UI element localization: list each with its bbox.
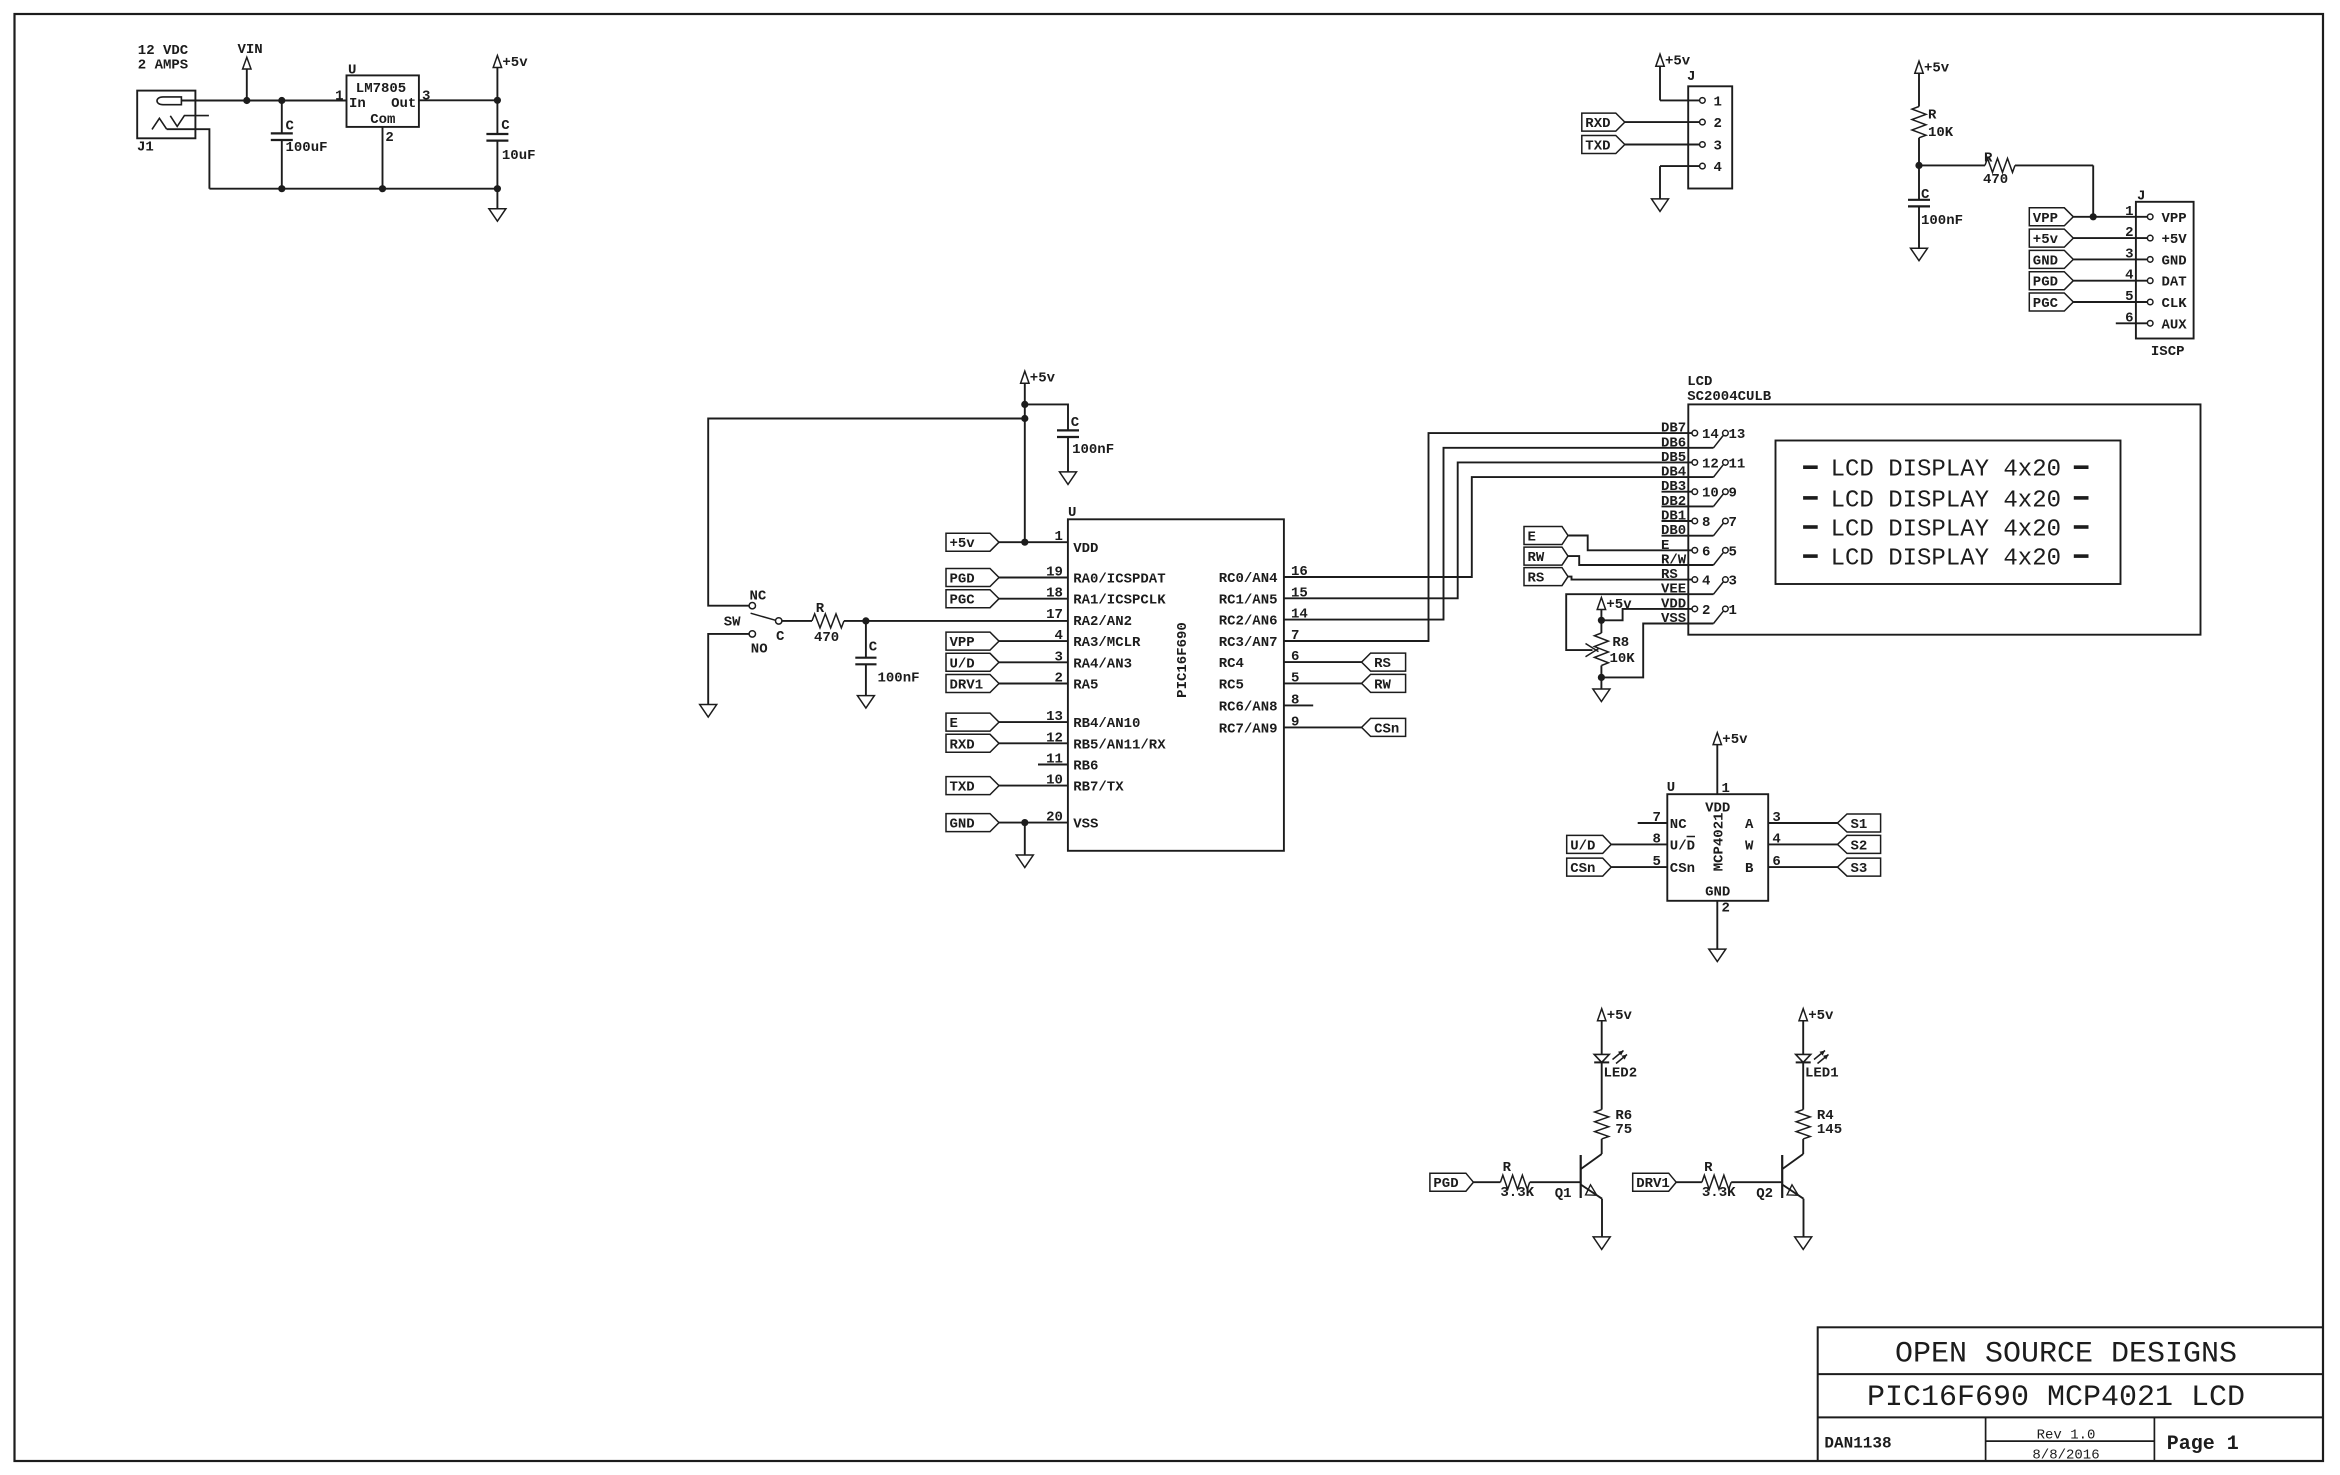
svg-text:R: R bbox=[1704, 1160, 1713, 1176]
svg-text:NC: NC bbox=[750, 589, 767, 605]
svg-text:GND: GND bbox=[950, 817, 975, 833]
svg-text:VPP: VPP bbox=[950, 635, 975, 651]
svg-text:470: 470 bbox=[814, 630, 839, 646]
svg-text:Q1: Q1 bbox=[1555, 1186, 1572, 1202]
svg-text:100nF: 100nF bbox=[1072, 442, 1114, 458]
svg-text:SC2004CULB: SC2004CULB bbox=[1687, 389, 1772, 405]
svg-text:100nF: 100nF bbox=[878, 671, 920, 687]
svg-text:2 AMPS: 2 AMPS bbox=[138, 57, 188, 73]
svg-text:B: B bbox=[1745, 861, 1754, 877]
svg-text:+5v: +5v bbox=[1030, 371, 1056, 387]
svg-text:1: 1 bbox=[335, 89, 343, 105]
svg-text:+5v: +5v bbox=[1665, 54, 1691, 70]
svg-text:4: 4 bbox=[1702, 574, 1710, 590]
svg-text:14: 14 bbox=[1702, 427, 1719, 443]
svg-text:RB7/TX: RB7/TX bbox=[1073, 780, 1124, 796]
svg-text:RC0/AN4: RC0/AN4 bbox=[1219, 571, 1278, 587]
svg-text:10: 10 bbox=[1702, 486, 1719, 502]
svg-text:RA0/ICSPDAT: RA0/ICSPDAT bbox=[1073, 572, 1165, 588]
svg-text:AUX: AUX bbox=[2162, 317, 2188, 333]
svg-text:2: 2 bbox=[1714, 116, 1722, 132]
svg-text:RC4: RC4 bbox=[1219, 656, 1244, 672]
svg-text:RB4/AN10: RB4/AN10 bbox=[1073, 716, 1140, 732]
svg-text:+5v: +5v bbox=[1607, 1008, 1633, 1024]
svg-text:PGD: PGD bbox=[950, 572, 975, 588]
svg-text:LCD DISPLAY 4x20: LCD DISPLAY 4x20 bbox=[1831, 457, 2061, 484]
svg-text:LM7805: LM7805 bbox=[356, 81, 406, 97]
svg-text:RXD: RXD bbox=[950, 737, 975, 753]
svg-text:LCD DISPLAY 4x20: LCD DISPLAY 4x20 bbox=[1831, 546, 2061, 573]
svg-text:LCD DISPLAY 4x20: LCD DISPLAY 4x20 bbox=[1831, 487, 2061, 514]
svg-text:17: 17 bbox=[1046, 607, 1063, 623]
svg-text:S3: S3 bbox=[1851, 861, 1868, 877]
svg-text:2: 2 bbox=[385, 130, 393, 146]
svg-text:PIC16F690 MCP4021 LCD: PIC16F690 MCP4021 LCD bbox=[1867, 1381, 2245, 1415]
svg-text:Out: Out bbox=[391, 96, 416, 112]
svg-text:RC1/AN5: RC1/AN5 bbox=[1219, 592, 1278, 608]
svg-text:13: 13 bbox=[1729, 427, 1746, 443]
svg-text:75: 75 bbox=[1615, 1122, 1632, 1138]
svg-text:U: U bbox=[1068, 505, 1076, 521]
svg-text:3.3K: 3.3K bbox=[1500, 1185, 1534, 1201]
svg-text:RA5: RA5 bbox=[1073, 678, 1098, 694]
svg-text:Com: Com bbox=[370, 112, 395, 128]
svg-text:U/D: U/D bbox=[950, 656, 975, 672]
svg-text:+5v: +5v bbox=[502, 55, 528, 71]
svg-text:3: 3 bbox=[1714, 139, 1722, 155]
svg-text:4: 4 bbox=[1714, 160, 1722, 176]
svg-text:12: 12 bbox=[1702, 456, 1719, 472]
svg-text:J: J bbox=[1687, 69, 1695, 85]
svg-text:PIC16F690: PIC16F690 bbox=[1175, 622, 1191, 698]
svg-text:470: 470 bbox=[1983, 172, 2008, 188]
svg-text:A: A bbox=[1745, 817, 1754, 833]
svg-text:10K: 10K bbox=[1928, 125, 1954, 141]
svg-text:ISCP: ISCP bbox=[2151, 344, 2185, 360]
svg-text:R: R bbox=[1984, 151, 1993, 167]
svg-text:E: E bbox=[950, 716, 958, 732]
svg-text:10uF: 10uF bbox=[502, 148, 536, 164]
svg-text:CSn: CSn bbox=[1374, 721, 1399, 737]
svg-text:NO: NO bbox=[751, 642, 768, 658]
svg-text:3: 3 bbox=[1729, 574, 1737, 590]
svg-text:100nF: 100nF bbox=[1921, 213, 1963, 229]
svg-text:+5v: +5v bbox=[1606, 597, 1632, 613]
svg-text:GND: GND bbox=[1705, 885, 1730, 901]
svg-text:NC: NC bbox=[1670, 817, 1687, 833]
svg-text:TXD: TXD bbox=[1585, 139, 1610, 155]
svg-text:GND: GND bbox=[2033, 253, 2058, 269]
svg-text:6: 6 bbox=[1702, 544, 1710, 560]
svg-text:DB1: DB1 bbox=[1661, 509, 1686, 525]
svg-text:RS: RS bbox=[1661, 567, 1678, 583]
svg-text:S2: S2 bbox=[1851, 838, 1868, 854]
svg-text:J1: J1 bbox=[137, 140, 154, 156]
svg-text:DB0: DB0 bbox=[1661, 523, 1686, 539]
svg-text:LED1: LED1 bbox=[1805, 1066, 1839, 1082]
svg-text:RC5: RC5 bbox=[1219, 677, 1244, 693]
svg-text:2: 2 bbox=[1702, 603, 1710, 619]
svg-text:VSS: VSS bbox=[1661, 611, 1686, 627]
svg-text:Rev 1.0: Rev 1.0 bbox=[2037, 1428, 2096, 1444]
svg-text:DAT: DAT bbox=[2162, 275, 2187, 291]
svg-text:VPP: VPP bbox=[2033, 211, 2058, 227]
svg-text:RC6/AN8: RC6/AN8 bbox=[1219, 699, 1278, 715]
svg-text:+5v: +5v bbox=[950, 536, 976, 552]
svg-text:3.3K: 3.3K bbox=[1702, 1185, 1736, 1201]
svg-text:DB6: DB6 bbox=[1661, 435, 1686, 451]
svg-text:S1: S1 bbox=[1851, 817, 1868, 833]
svg-text:W: W bbox=[1745, 838, 1754, 854]
svg-text:C: C bbox=[1071, 415, 1080, 431]
svg-text:CSn: CSn bbox=[1670, 861, 1695, 877]
svg-text:RS: RS bbox=[1528, 571, 1545, 587]
svg-text:+5v: +5v bbox=[1924, 61, 1950, 77]
svg-text:VEE: VEE bbox=[1661, 582, 1686, 598]
svg-text:DRV1: DRV1 bbox=[950, 678, 984, 694]
svg-text:7: 7 bbox=[1729, 515, 1737, 531]
svg-text:E: E bbox=[1528, 530, 1536, 546]
svg-text:8/8/2016: 8/8/2016 bbox=[2032, 1448, 2099, 1464]
svg-text:Page 1: Page 1 bbox=[2167, 1433, 2239, 1456]
svg-text:C: C bbox=[501, 118, 510, 134]
svg-text:RA4/AN3: RA4/AN3 bbox=[1073, 656, 1132, 672]
svg-text:CSn: CSn bbox=[1570, 861, 1595, 877]
svg-text:C: C bbox=[286, 119, 295, 135]
svg-text:DRV1: DRV1 bbox=[1636, 1176, 1670, 1192]
svg-text:RB6: RB6 bbox=[1073, 759, 1098, 775]
svg-text:C: C bbox=[869, 640, 878, 656]
svg-text:TXD: TXD bbox=[950, 780, 975, 796]
svg-text:5: 5 bbox=[1729, 544, 1737, 560]
svg-text:+5v: +5v bbox=[2033, 232, 2059, 248]
svg-text:RB5/AN11/RX: RB5/AN11/RX bbox=[1073, 737, 1166, 753]
svg-text:PGD: PGD bbox=[1433, 1176, 1458, 1192]
svg-text:U: U bbox=[348, 63, 356, 79]
svg-text:RA1/ICSPCLK: RA1/ICSPCLK bbox=[1073, 593, 1166, 609]
svg-text:LCD DISPLAY 4x20: LCD DISPLAY 4x20 bbox=[1831, 517, 2061, 544]
svg-text:PGC: PGC bbox=[2033, 296, 2059, 312]
svg-text:11: 11 bbox=[1729, 456, 1746, 472]
svg-text:PGC: PGC bbox=[950, 593, 976, 609]
svg-text:OPEN SOURCE DESIGNS: OPEN SOURCE DESIGNS bbox=[1895, 1338, 2237, 1372]
svg-text:CLK: CLK bbox=[2162, 296, 2188, 312]
svg-text:U/D: U/D bbox=[1670, 838, 1695, 854]
svg-text:R: R bbox=[1928, 108, 1937, 124]
svg-text:1: 1 bbox=[1714, 94, 1722, 110]
svg-text:9: 9 bbox=[1729, 486, 1737, 502]
svg-text:R8: R8 bbox=[1612, 635, 1629, 651]
svg-text:VDD: VDD bbox=[1073, 541, 1098, 557]
svg-text:DB2: DB2 bbox=[1661, 494, 1686, 510]
svg-text:RC2/AN6: RC2/AN6 bbox=[1219, 614, 1278, 630]
svg-text:1: 1 bbox=[1729, 603, 1737, 619]
svg-text:U/D: U/D bbox=[1570, 838, 1595, 854]
svg-text:DAN1138: DAN1138 bbox=[1824, 1435, 1891, 1453]
svg-text:In: In bbox=[349, 96, 366, 112]
svg-text:R: R bbox=[816, 601, 825, 617]
svg-text:VPP: VPP bbox=[2162, 211, 2187, 227]
svg-text:DB7: DB7 bbox=[1661, 421, 1686, 437]
svg-text:PGD: PGD bbox=[2033, 275, 2058, 291]
svg-text:C: C bbox=[776, 629, 785, 645]
svg-text:RXD: RXD bbox=[1585, 116, 1610, 132]
svg-text:RA3/MCLR: RA3/MCLR bbox=[1073, 635, 1141, 651]
svg-text:DB4: DB4 bbox=[1661, 465, 1686, 481]
svg-text:MCP4021: MCP4021 bbox=[1712, 812, 1728, 871]
svg-text:3: 3 bbox=[422, 89, 430, 105]
svg-text:LCD: LCD bbox=[1687, 374, 1712, 390]
svg-text:100uF: 100uF bbox=[286, 140, 328, 156]
svg-text:RW: RW bbox=[1528, 550, 1545, 566]
svg-text:145: 145 bbox=[1817, 1122, 1842, 1138]
svg-text:DB5: DB5 bbox=[1661, 450, 1686, 466]
svg-text:R: R bbox=[1503, 1160, 1512, 1176]
svg-text:RC3/AN7: RC3/AN7 bbox=[1219, 635, 1278, 651]
svg-text:2: 2 bbox=[1722, 901, 1730, 917]
svg-text:LED2: LED2 bbox=[1604, 1066, 1638, 1082]
svg-text:VSS: VSS bbox=[1073, 817, 1098, 833]
svg-text:RS: RS bbox=[1374, 656, 1391, 672]
svg-text:+5v: +5v bbox=[1722, 732, 1748, 748]
svg-text:GND: GND bbox=[2162, 253, 2187, 269]
svg-text:10K: 10K bbox=[1610, 651, 1636, 667]
svg-text:RW: RW bbox=[1374, 677, 1391, 693]
svg-text:SW: SW bbox=[724, 615, 741, 631]
svg-text:8: 8 bbox=[1702, 515, 1710, 531]
svg-text:DB3: DB3 bbox=[1661, 479, 1686, 495]
svg-text:VIN: VIN bbox=[238, 42, 263, 58]
svg-text:E: E bbox=[1661, 538, 1669, 554]
svg-text:+5v: +5v bbox=[1808, 1008, 1834, 1024]
svg-text:Q2: Q2 bbox=[1756, 1186, 1773, 1202]
svg-text:RA2/AN2: RA2/AN2 bbox=[1073, 614, 1132, 630]
svg-text:VDD: VDD bbox=[1661, 596, 1686, 612]
svg-text:+5V: +5V bbox=[2162, 232, 2188, 248]
svg-text:RC7/AN9: RC7/AN9 bbox=[1219, 721, 1278, 737]
svg-text:R/W: R/W bbox=[1661, 553, 1687, 569]
